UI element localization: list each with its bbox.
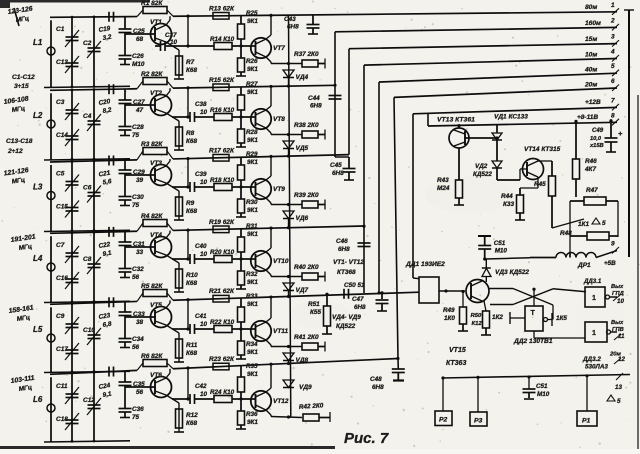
svg-text:C40: C40 xyxy=(195,243,207,250)
svg-text:R43: R43 xyxy=(437,177,449,184)
svg-text:C8: C8 xyxy=(83,256,92,263)
svg-text:C50 51: C50 51 xyxy=(344,282,365,289)
svg-text:ДД3.2: ДД3.2 xyxy=(582,356,601,363)
svg-text:7: 7 xyxy=(611,97,615,104)
svg-text:VT3: VT3 xyxy=(150,160,162,167)
svg-text:L3: L3 xyxy=(33,183,43,192)
svg-text:R18 К10: R18 К10 xyxy=(210,177,235,184)
svg-text:R50: R50 xyxy=(471,313,483,319)
svg-text:C32: C32 xyxy=(132,266,144,273)
svg-text:VT6: VT6 xyxy=(150,372,162,379)
svg-text:R9: R9 xyxy=(186,200,195,207)
svg-text:15м: 15м xyxy=(585,36,597,43)
svg-text:C10: C10 xyxy=(83,327,95,334)
svg-text:C14: C14 xyxy=(56,132,68,139)
svg-text:9К1: 9К1 xyxy=(247,279,258,286)
svg-text:VД9: VД9 xyxy=(299,384,312,391)
svg-text:C15: C15 xyxy=(56,204,68,211)
svg-text:R22 К10: R22 К10 xyxy=(210,319,235,326)
svg-text:М24: М24 xyxy=(437,185,450,192)
svg-text:C51: C51 xyxy=(494,240,506,247)
svg-text:ДД3.1: ДД3.1 xyxy=(583,278,602,285)
svg-text:1: 1 xyxy=(592,295,596,302)
svg-text:R13 62К: R13 62К xyxy=(209,5,235,12)
svg-text:VT10: VT10 xyxy=(273,258,289,265)
svg-text:1: 1 xyxy=(611,2,615,9)
svg-text:L1: L1 xyxy=(33,38,43,47)
svg-text:R49: R49 xyxy=(443,307,455,314)
svg-text:R51: R51 xyxy=(308,301,320,308)
svg-text:VT9: VT9 xyxy=(273,186,285,193)
svg-text:КТ368: КТ368 xyxy=(337,269,356,276)
svg-text:11: 11 xyxy=(618,333,625,340)
svg-text:C26: C26 xyxy=(132,53,144,60)
svg-text:10: 10 xyxy=(200,179,208,186)
svg-text:R48: R48 xyxy=(560,230,572,237)
svg-text:VT14 КТ315: VT14 КТ315 xyxy=(524,146,561,153)
svg-text:33: 33 xyxy=(136,249,144,256)
svg-text:C12: C12 xyxy=(83,397,95,404)
svg-text:Вых: Вых xyxy=(611,320,624,326)
svg-text:ДР1: ДР1 xyxy=(577,262,591,269)
svg-text:9К1: 9К1 xyxy=(247,349,258,356)
svg-text:R6 82К: R6 82К xyxy=(141,353,163,360)
svg-text:VД3 КД522: VД3 КД522 xyxy=(495,269,529,276)
svg-text:20м: 20м xyxy=(584,81,597,88)
svg-text:Р3: Р3 xyxy=(474,418,483,425)
svg-text:47: 47 xyxy=(135,107,144,114)
svg-text:R30: R30 xyxy=(246,199,258,206)
svg-text:R37 2К0: R37 2К0 xyxy=(294,51,319,58)
svg-text:6: 6 xyxy=(611,78,615,85)
svg-text:VT13 КТ361: VT13 КТ361 xyxy=(437,117,475,124)
svg-text:VT1- VT12: VT1- VT12 xyxy=(333,259,364,266)
svg-text:R1 82К: R1 82К xyxy=(141,0,163,7)
svg-text:КД522: КД522 xyxy=(473,171,492,178)
svg-text:R11: R11 xyxy=(186,342,198,349)
svg-text:R40 2К0: R40 2К0 xyxy=(294,264,319,271)
svg-text:L2: L2 xyxy=(33,111,43,120)
svg-text:К68: К68 xyxy=(186,280,197,287)
svg-text:10,0: 10,0 xyxy=(590,136,602,142)
svg-text:R47: R47 xyxy=(586,187,598,194)
svg-text:+12В: +12В xyxy=(585,99,601,106)
svg-text:75: 75 xyxy=(132,202,140,209)
svg-text:8: 8 xyxy=(611,112,615,119)
svg-text:VД6: VД6 xyxy=(296,215,309,222)
svg-text:C30: C30 xyxy=(132,194,144,201)
svg-text:C13-C18: C13-C18 xyxy=(6,138,33,145)
svg-text:VT12: VT12 xyxy=(273,398,289,405)
svg-text:С43: С43 xyxy=(284,16,296,23)
svg-text:R44: R44 xyxy=(501,193,513,200)
svg-text:R26: R26 xyxy=(246,58,258,65)
svg-text:R28: R28 xyxy=(246,129,258,136)
svg-text:VT11: VT11 xyxy=(273,328,288,335)
svg-text:R45: R45 xyxy=(534,181,546,188)
svg-text:L6: L6 xyxy=(33,395,43,404)
svg-text:Р2: Р2 xyxy=(439,417,448,424)
svg-text:C2: C2 xyxy=(83,40,92,47)
svg-text:R35: R35 xyxy=(246,363,258,370)
svg-text:К12: К12 xyxy=(472,321,483,327)
svg-text:9К1: 9К1 xyxy=(247,137,258,144)
svg-text:56: 56 xyxy=(132,274,140,281)
svg-text:C7: C7 xyxy=(56,242,65,249)
svg-text:10: 10 xyxy=(170,39,178,46)
svg-text:9К1: 9К1 xyxy=(247,18,258,25)
svg-text:VД4- VД9: VД4- VД9 xyxy=(332,314,361,321)
svg-text:ГПД: ГПД xyxy=(612,291,624,297)
svg-text:R46: R46 xyxy=(585,158,597,165)
svg-text:L4: L4 xyxy=(33,254,43,263)
svg-text:80м: 80м xyxy=(585,4,597,11)
svg-text:К68: К68 xyxy=(186,67,197,74)
svg-text:C11: C11 xyxy=(56,383,68,390)
svg-text:6Н8: 6Н8 xyxy=(338,246,350,253)
svg-text:C16: C16 xyxy=(56,275,68,282)
svg-text:3: 3 xyxy=(611,34,615,41)
svg-text:9К1: 9К1 xyxy=(247,371,258,378)
svg-text:R31: R31 xyxy=(246,223,258,230)
svg-text:М10: М10 xyxy=(495,248,508,255)
svg-text:C35: C35 xyxy=(133,381,145,388)
svg-text:Т: Т xyxy=(531,310,536,317)
svg-text:C29: C29 xyxy=(133,169,145,176)
svg-text:9К1: 9К1 xyxy=(247,207,258,214)
svg-text:R7: R7 xyxy=(186,59,195,66)
svg-text:1К2: 1К2 xyxy=(492,314,503,321)
svg-text:R27: R27 xyxy=(246,81,258,88)
svg-text:R16 К10: R16 К10 xyxy=(210,107,235,114)
svg-text:13: 13 xyxy=(615,384,622,391)
svg-text:56: 56 xyxy=(132,344,140,351)
svg-text:C17: C17 xyxy=(56,346,68,353)
svg-text:C39: C39 xyxy=(195,171,207,178)
svg-text:R36: R36 xyxy=(246,411,258,418)
svg-text:C27: C27 xyxy=(133,99,145,106)
svg-text:10: 10 xyxy=(200,109,208,116)
svg-text:VT4: VT4 xyxy=(150,232,162,239)
svg-text:9К1: 9К1 xyxy=(247,89,258,96)
svg-text:R15 62К: R15 62К xyxy=(209,77,235,84)
svg-text:2÷12: 2÷12 xyxy=(7,148,23,155)
svg-text:R34: R34 xyxy=(246,341,258,348)
svg-text:2: 2 xyxy=(610,17,615,24)
svg-text:C25: C25 xyxy=(133,28,145,35)
svg-text:VT1: VT1 xyxy=(150,19,162,26)
svg-text:L5: L5 xyxy=(33,325,43,334)
svg-text:9К1: 9К1 xyxy=(247,301,258,308)
svg-text:С46: С46 xyxy=(336,238,348,245)
svg-text:C49: C49 xyxy=(592,127,604,134)
svg-text:1К0: 1К0 xyxy=(444,315,455,322)
svg-text:VД1 КС133: VД1 КС133 xyxy=(494,114,528,121)
svg-text:10: 10 xyxy=(617,298,624,305)
svg-text:68: 68 xyxy=(136,36,144,43)
svg-text:К68: К68 xyxy=(186,138,197,145)
svg-text:C34: C34 xyxy=(132,336,144,343)
svg-text:ДД1 193ИЕ2: ДД1 193ИЕ2 xyxy=(405,261,445,268)
svg-text:C13: C13 xyxy=(56,59,68,66)
svg-text:C6: C6 xyxy=(83,185,92,192)
svg-text:39: 39 xyxy=(136,177,144,184)
svg-text:C31: C31 xyxy=(133,241,145,248)
svg-text:+: + xyxy=(618,129,623,138)
svg-text:VT5: VT5 xyxy=(150,302,162,309)
svg-text:R17 62К: R17 62К xyxy=(209,147,235,154)
svg-text:75: 75 xyxy=(132,414,140,421)
svg-text:R10: R10 xyxy=(186,272,198,279)
svg-text:R33: R33 xyxy=(246,293,258,300)
svg-text:R4 82К: R4 82К xyxy=(141,213,163,220)
svg-text:R39 2К0: R39 2К0 xyxy=(294,192,319,199)
svg-text:R5 82К: R5 82К xyxy=(141,283,163,290)
svg-text:10: 10 xyxy=(200,321,208,328)
svg-text:КТ363: КТ363 xyxy=(446,360,466,367)
svg-text:+5В: +5В xyxy=(604,260,616,267)
svg-text:C37: C37 xyxy=(165,32,177,39)
svg-text:К68: К68 xyxy=(186,420,197,427)
svg-text:VT2: VT2 xyxy=(150,90,162,97)
svg-text:40м: 40м xyxy=(584,66,597,73)
svg-text:К68: К68 xyxy=(186,208,197,215)
svg-text:9К1: 9К1 xyxy=(247,419,258,426)
svg-text:R23 62К: R23 62К xyxy=(209,356,235,363)
svg-text:56: 56 xyxy=(136,389,144,396)
svg-text:R3 82К: R3 82К xyxy=(141,141,163,148)
svg-text:Вых: Вых xyxy=(611,284,624,290)
svg-text:5: 5 xyxy=(617,398,621,405)
svg-text:C42: C42 xyxy=(195,383,207,390)
svg-text:М10: М10 xyxy=(537,391,550,398)
svg-text:10: 10 xyxy=(200,391,208,398)
svg-text:х15В: х15В xyxy=(589,143,604,149)
svg-text:VT7: VT7 xyxy=(273,45,285,52)
svg-text:C36: C36 xyxy=(132,406,144,413)
svg-text:C9: C9 xyxy=(56,313,65,320)
svg-text:4К7: 4К7 xyxy=(584,166,596,173)
svg-text:КД522: КД522 xyxy=(336,323,356,330)
svg-text:1К1: 1К1 xyxy=(578,221,589,228)
svg-text:9К1: 9К1 xyxy=(247,66,258,73)
svg-text:C33: C33 xyxy=(133,311,145,318)
svg-text:R38 2К0: R38 2К0 xyxy=(294,122,319,129)
svg-text:R29: R29 xyxy=(246,151,258,158)
svg-text:R2 82К: R2 82К xyxy=(141,71,163,78)
svg-text:75: 75 xyxy=(132,132,140,139)
svg-text:VД5: VД5 xyxy=(296,145,309,152)
svg-text:М10: М10 xyxy=(132,61,145,68)
svg-text:R21 62К: R21 62К xyxy=(209,288,235,295)
svg-text:R12: R12 xyxy=(186,412,198,419)
svg-text:C3: C3 xyxy=(56,99,65,106)
svg-text:1К5: 1К5 xyxy=(556,315,567,322)
svg-text:R19 62К: R19 62К xyxy=(209,219,235,226)
svg-text:5: 5 xyxy=(602,220,606,227)
svg-text:C18: C18 xyxy=(56,416,68,423)
svg-text:3÷15: 3÷15 xyxy=(14,83,29,90)
svg-text:ДД2 130ТВ1: ДД2 130ТВ1 xyxy=(513,338,553,345)
svg-text:C41: C41 xyxy=(195,313,207,320)
svg-text:C4: C4 xyxy=(83,113,92,120)
svg-text:R32: R32 xyxy=(246,271,258,278)
svg-text:R41 2К0: R41 2К0 xyxy=(294,334,319,341)
svg-text:1: 1 xyxy=(592,330,596,337)
svg-text:10: 10 xyxy=(200,251,208,258)
svg-text:С45: С45 xyxy=(330,162,342,169)
svg-text:6Н8: 6Н8 xyxy=(332,170,344,177)
svg-text:C38: C38 xyxy=(195,101,207,108)
svg-text:R14 К10: R14 К10 xyxy=(210,36,235,43)
svg-text:160м: 160м xyxy=(585,20,601,27)
svg-text:9: 9 xyxy=(611,241,615,248)
svg-text:VД2: VД2 xyxy=(475,163,488,170)
svg-text:38: 38 xyxy=(136,319,144,326)
svg-text:К55: К55 xyxy=(310,309,321,316)
svg-text:530ЛА3: 530ЛА3 xyxy=(585,364,608,371)
svg-text:+8-11В: +8-11В xyxy=(577,114,598,121)
svg-text:10м: 10м xyxy=(585,51,597,58)
svg-text:С44: С44 xyxy=(308,95,320,102)
svg-text:C1-C12: C1-C12 xyxy=(12,74,35,81)
svg-text:VT15: VT15 xyxy=(449,347,466,354)
svg-text:6Н8: 6Н8 xyxy=(354,304,366,311)
svg-text:C47: C47 xyxy=(352,296,364,303)
svg-text:К33: К33 xyxy=(503,201,514,208)
svg-text:Р1: Р1 xyxy=(582,418,591,425)
svg-text:R20 К10: R20 К10 xyxy=(210,249,235,256)
svg-text:С48: С48 xyxy=(370,376,382,383)
svg-text:К68: К68 xyxy=(186,350,197,357)
svg-text:6Н8: 6Н8 xyxy=(287,24,299,31)
svg-text:5: 5 xyxy=(611,63,615,70)
svg-text:9К1: 9К1 xyxy=(247,159,258,166)
svg-text:9К1: 9К1 xyxy=(247,231,258,238)
svg-text:4: 4 xyxy=(610,49,615,56)
svg-text:6Н8: 6Н8 xyxy=(372,384,384,391)
svg-text:R8: R8 xyxy=(186,130,195,137)
svg-text:C1: C1 xyxy=(56,26,65,33)
svg-text:C51: C51 xyxy=(536,383,548,390)
svg-text:6Н8: 6Н8 xyxy=(310,103,322,110)
svg-text:R24 К10: R24 К10 xyxy=(210,389,235,396)
svg-text:VT8: VT8 xyxy=(273,116,285,123)
svg-text:C5: C5 xyxy=(56,171,65,178)
svg-text:VД4: VД4 xyxy=(296,74,309,81)
svg-text:Рис. 7: Рис. 7 xyxy=(344,430,389,447)
svg-text:VД7: VД7 xyxy=(296,287,309,294)
svg-text:C28: C28 xyxy=(132,124,144,131)
